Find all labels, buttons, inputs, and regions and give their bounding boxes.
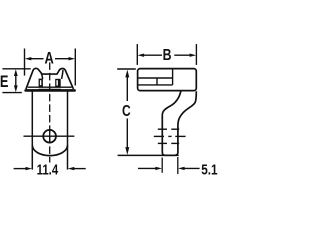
dimension C top extension line xyxy=(117,68,136,70)
dimension B extension line right xyxy=(195,44,197,65)
svg-text:11.4: 11.4 xyxy=(37,161,59,178)
bottom dome arc xyxy=(32,145,67,155)
dimension 11.4 arrow left xyxy=(14,168,27,170)
crosshair vertical tick xyxy=(49,129,51,143)
hook bottom line xyxy=(28,86,72,88)
svg-text:E: E xyxy=(0,73,9,91)
dimension B arrow left xyxy=(142,54,162,56)
dimension B extension line left xyxy=(136,44,138,65)
dimension C arrow down xyxy=(126,119,128,149)
crosshair horizontal xyxy=(24,135,75,137)
mounting hole circle xyxy=(43,130,56,143)
saddle top profile (left view outline) xyxy=(26,68,74,89)
leg hidden line row 3 xyxy=(158,142,167,144)
svg-text:5.1: 5.1 xyxy=(201,161,218,178)
leg hidden line row 2 xyxy=(154,135,164,137)
side view head block xyxy=(138,69,197,91)
dimension 5.1 extension line right xyxy=(177,157,179,174)
svg-text:B: B xyxy=(163,47,172,65)
body left side xyxy=(31,92,33,170)
block internal vertical small xyxy=(156,78,158,85)
left barb xyxy=(39,79,43,88)
slot floor line xyxy=(39,88,61,90)
shoulder plate xyxy=(26,89,75,92)
dimension 5.1 arrow right xyxy=(184,167,200,169)
neck and leg outline xyxy=(162,91,196,155)
right hook inner descent xyxy=(62,70,63,79)
leg hidden line row 1 xyxy=(158,128,167,130)
vertical centerline (dashed) xyxy=(49,62,51,162)
dimension 5.1 extension line left xyxy=(161,158,163,173)
dimension B arrow right xyxy=(174,54,191,56)
dimension A extension line left xyxy=(24,49,26,76)
dimension A extension line right xyxy=(74,49,76,86)
dimension E top extension line xyxy=(2,68,30,70)
dimension 5.1 arrow left xyxy=(138,167,156,169)
body right side xyxy=(67,92,69,170)
dimension E double arrow xyxy=(15,74,17,89)
dimension C arrow up xyxy=(126,77,128,102)
dimension 11.4 arrow right xyxy=(73,168,85,170)
right barb xyxy=(55,79,61,88)
block internal horizontal 1 xyxy=(138,77,172,79)
left hook inner descent xyxy=(42,73,43,79)
svg-text:C: C xyxy=(122,102,131,120)
block internal vertical divider xyxy=(172,69,174,85)
block internal horizontal 2 xyxy=(138,84,172,86)
dimension A arrow left xyxy=(30,58,44,60)
dimension A arrow right xyxy=(55,58,71,60)
dimension E bottom extension line xyxy=(2,92,21,94)
baseline xyxy=(118,154,179,156)
